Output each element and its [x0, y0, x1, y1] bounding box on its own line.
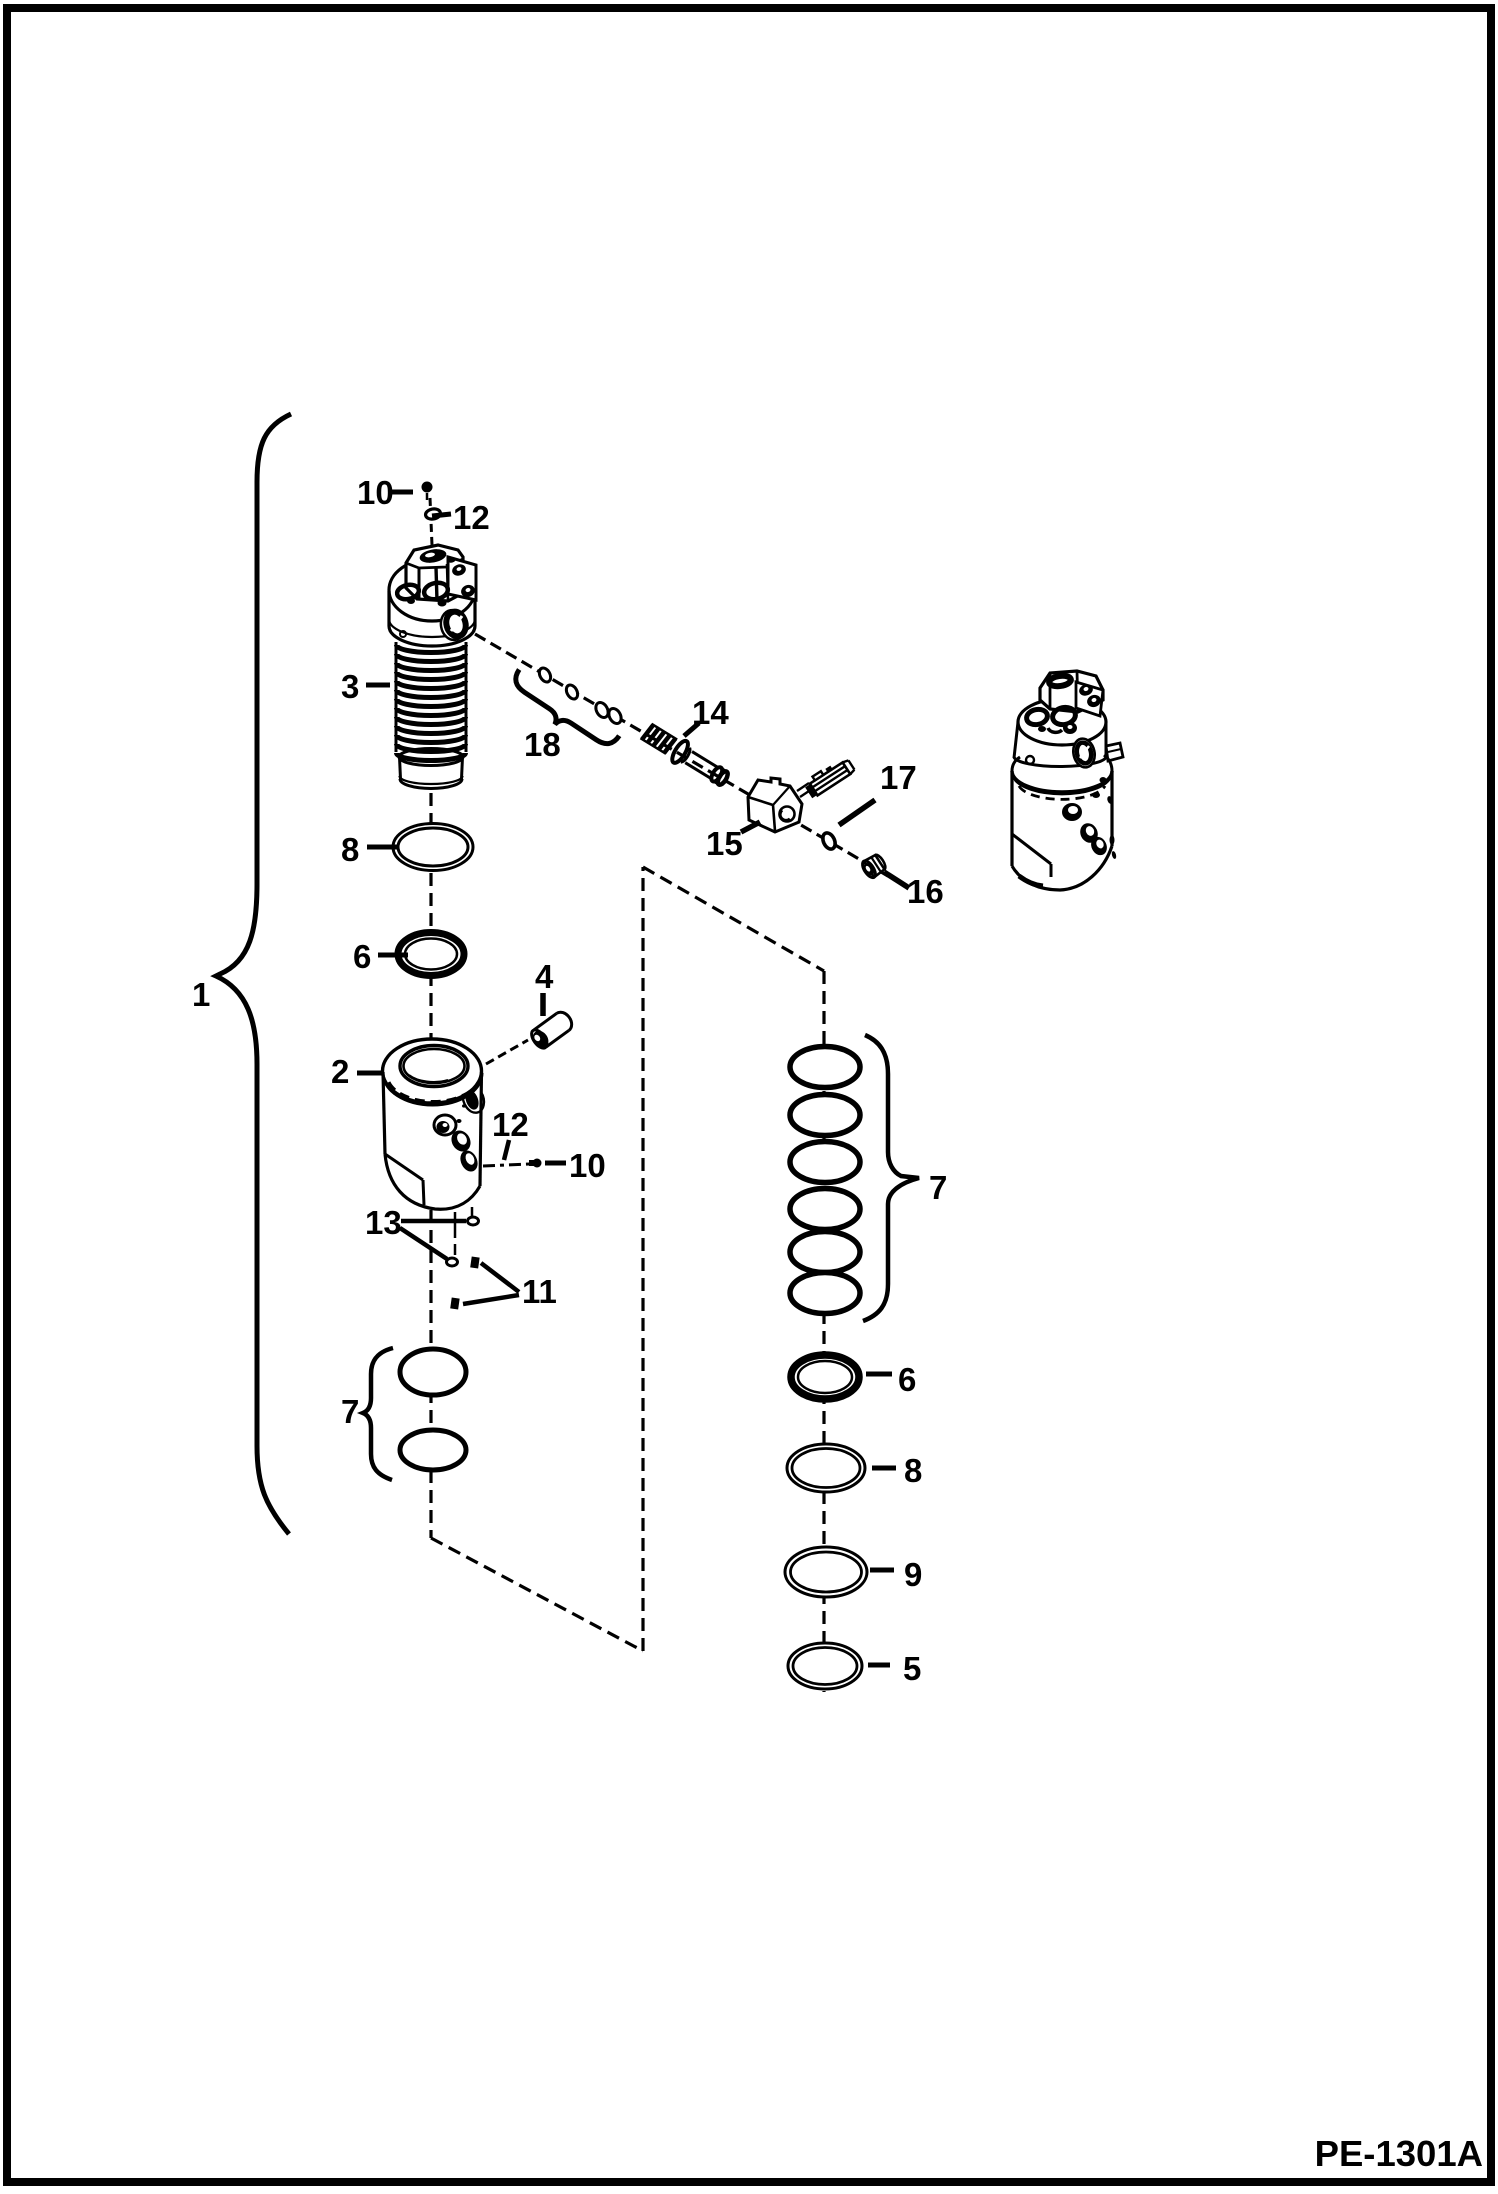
brace 18 — [505, 670, 619, 758]
dash-dot leader to screw 10 mid — [483, 1164, 530, 1166]
o-ring 13a — [468, 1217, 479, 1225]
assembled swivel unit — [1018, 699, 1106, 745]
o-ring 8 right — [787, 1444, 865, 1492]
screw 11b — [450, 1297, 459, 1309]
svg-text:11: 11 — [522, 1273, 557, 1310]
plug 4 — [528, 1009, 575, 1051]
connector (part of 15) — [802, 755, 855, 798]
o-ring 7 left top — [400, 1349, 466, 1395]
svg-text:6: 6 — [898, 1361, 916, 1398]
wire: dashed diagonal to right stack — [643, 867, 824, 971]
brace 1 (assembly group) — [216, 414, 291, 1534]
o-ring 5 — [788, 1643, 862, 1689]
wire: dashed path lower-left — [431, 1538, 643, 1651]
svg-text:6: 6 — [353, 938, 371, 975]
svg-text:3: 3 — [341, 668, 359, 705]
svg-text:7: 7 — [341, 1393, 359, 1430]
svg-text:2: 2 — [331, 1053, 349, 1090]
o-ring 6 right — [791, 1355, 859, 1399]
svg-text:9: 9 — [904, 1556, 922, 1593]
wire: dashed centerline right stack — [822, 971, 825, 1692]
svg-text:PE-1301A: PE-1301A — [1315, 2133, 1483, 2174]
svg-text:1: 1 — [192, 976, 210, 1013]
svg-text:5: 5 — [903, 1650, 921, 1687]
svg-text:18: 18 — [524, 726, 561, 763]
svg-text:16: 16 — [907, 873, 944, 910]
wire: dashed centerline below body — [429, 1210, 432, 1538]
washer 12 (top) — [425, 508, 442, 520]
wire: dashed centerline screw to valve — [430, 498, 432, 545]
svg-text:7: 7 — [929, 1169, 947, 1206]
nut 16 — [860, 852, 888, 879]
o-ring 17 — [820, 831, 837, 851]
svg-text:8: 8 — [904, 1452, 922, 1489]
wire: dashed vertical mid — [641, 867, 644, 1651]
o-ring 13b — [447, 1258, 458, 1266]
svg-text:12: 12 — [453, 499, 490, 536]
screw 11a — [470, 1256, 479, 1268]
dashed leader to plug 4 — [486, 1040, 528, 1064]
o-rings 18 — [537, 666, 553, 684]
spool 14 — [639, 720, 733, 791]
o-rings 7 right stack — [790, 1047, 860, 1088]
valve cartridge 3 — [389, 559, 475, 621]
svg-text:4: 4 — [535, 958, 554, 995]
svg-text:10: 10 — [569, 1147, 606, 1184]
screw 10 (mid) — [533, 1159, 542, 1168]
brace 7 left — [363, 1348, 393, 1480]
wire: dashed centerline to o-rings — [429, 793, 432, 1062]
wire: dashed axis valve to solenoid — [475, 634, 888, 876]
svg-text:15: 15 — [706, 825, 743, 862]
solenoid block 15 — [748, 778, 802, 832]
o-ring 7 left bottom — [400, 1430, 466, 1470]
o-ring 6 (left) — [398, 933, 464, 976]
o-ring 8 (left) — [393, 824, 473, 871]
svg-text:13: 13 — [365, 1204, 402, 1241]
screw 10 (top) — [422, 482, 433, 493]
svg-text:12: 12 — [492, 1106, 529, 1143]
body 2 — [383, 1039, 482, 1103]
svg-text:17: 17 — [880, 759, 917, 796]
o-ring 9 — [785, 1547, 867, 1597]
svg-text:10: 10 — [357, 474, 394, 511]
brace 7 right — [863, 1035, 919, 1321]
svg-text:8: 8 — [341, 831, 359, 868]
